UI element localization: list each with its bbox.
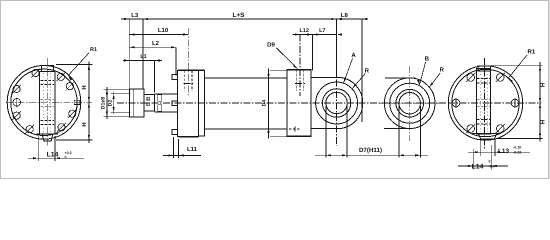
cylinder tube top [205, 77, 288, 79]
right flange bolt hole 3 [467, 74, 475, 82]
svg-text:L13: L13 [498, 148, 509, 155]
eye B vertical centerline [409, 66, 411, 141]
left flange end view outer circle [7, 66, 81, 140]
eye B boss circle [390, 83, 430, 123]
front port hidden lines [184, 70, 186, 91]
front head flange part [199, 70, 205, 136]
left flange top port boss [42, 66, 54, 72]
svg-text:L10: L10 [158, 27, 169, 34]
dimension L7 [312, 34, 336, 36]
dimension D1e8 extension lines [104, 88, 131, 90]
svg-text:L11: L11 [187, 146, 198, 153]
svg-text:D4: D4 [261, 100, 267, 107]
dimension L14 extension lines (left view) [37, 136, 39, 161]
left flange center tube rectangle [40, 71, 56, 134]
dimension L14 (left view) [28, 157, 84, 159]
dimension D7(H11) [315, 154, 428, 156]
rear eye pin hole [326, 92, 347, 113]
left flange vertical centerline [46, 58, 48, 147]
svg-text:R: R [440, 67, 445, 74]
rod locknut marks [158, 95, 162, 102]
eye B pin hole [399, 93, 420, 114]
rear port centerline [299, 35, 301, 97]
eye B bottom chord line [384, 128, 413, 130]
extension line rod eye rear face [142, 19, 144, 89]
left flange bolt hole 1 [66, 83, 73, 90]
dimension D7 extension lines [325, 106, 327, 158]
svg-text:L7: L7 [319, 28, 325, 34]
left flange bolt hole 2 [57, 73, 64, 80]
right flange vertical centerline [483, 58, 485, 150]
extension line rear head face [311, 35, 313, 71]
left flange tube rect hidden lines [41, 80, 55, 82]
rear port center cross [295, 83, 305, 85]
dimension L10 [129, 34, 188, 36]
dimension D2 extension lines [111, 93, 131, 95]
right flange inner circle [452, 69, 519, 136]
right flange outer circle [448, 66, 522, 140]
rear port hidden lines [295, 70, 297, 91]
left flange bolt hole 5 [13, 112, 20, 119]
dimension L12 [293, 34, 313, 36]
left flange inner circle [11, 69, 77, 135]
dimension L1 [123, 60, 162, 62]
eye B horizontal centerline [379, 102, 444, 104]
left flange pilot hole at 180 [13, 99, 21, 107]
extension line eye center [336, 19, 338, 78]
left flange bolt hole 8 [69, 110, 76, 117]
dimension L3 [121, 18, 150, 20]
svg-text:L12: L12 [300, 28, 309, 34]
svg-text:L8: L8 [341, 12, 349, 19]
left flange rim pad at 0 [74, 100, 80, 104]
extension line head front face [175, 47, 177, 75]
rod thread marks [147, 97, 150, 100]
svg-text:L+S: L+S [233, 12, 246, 19]
svg-text:L2: L2 [152, 40, 160, 47]
svg-text:H: H [81, 85, 88, 89]
right flange top boss [478, 66, 491, 71]
svg-text:D9: D9 [267, 42, 275, 49]
dimension D1e8 [106, 87, 108, 119]
front head middle tab [172, 101, 178, 106]
right flange center rectangle [477, 69, 491, 134]
rear eye lug outline [311, 77, 363, 128]
dimension L14 (right view) [458, 165, 508, 167]
svg-text:B: B [425, 56, 430, 63]
svg-text:-0.10: -0.10 [513, 145, 521, 149]
svg-text:H: H [540, 83, 547, 87]
extension line eye rear face [361, 19, 363, 122]
right flange bottom boss [472, 134, 500, 140]
right flange bolt hole 2 [496, 74, 504, 82]
svg-text:H: H [540, 120, 547, 124]
svg-text:+0.2: +0.2 [65, 151, 72, 155]
svg-text:-0.4: -0.4 [489, 164, 495, 168]
dimension L13 [468, 151, 530, 153]
svg-text:L14: L14 [472, 163, 484, 170]
right flange rect hidden lines [477, 78, 491, 80]
svg-text:H: H [81, 122, 88, 126]
rod eye block [129, 89, 144, 117]
rear eye vertical centerline [336, 68, 338, 146]
right flange bolt hole 6 [496, 125, 504, 133]
rear eye chamfer circle [322, 89, 350, 117]
front port center cross [183, 83, 193, 85]
left flange bolt hole 4 [13, 85, 20, 92]
dimension L11 extension lines [173, 137, 175, 158]
svg-text:R1: R1 [90, 47, 97, 53]
dimension D4 [268, 68, 270, 138]
dimension H (right view) [491, 64, 543, 66]
left flange bolt hole 6 [26, 126, 33, 133]
svg-text:L14: L14 [47, 151, 59, 158]
svg-text:0: 0 [489, 159, 491, 163]
left flange horizontal centerline [6, 101, 92, 103]
left flange bottom boss [37, 134, 59, 141]
svg-text:L3: L3 [131, 12, 139, 19]
rear eye flat face line [361, 85, 363, 122]
svg-text:-0.33: -0.33 [513, 150, 521, 154]
eye B top chord line [385, 77, 416, 79]
dimension L8 [337, 18, 368, 20]
right flange bottom spigot lines [479, 139, 481, 156]
svg-text:R1: R1 [528, 49, 536, 56]
rear head bottom hidden port dashes [289, 128, 301, 130]
dimension D4 extension lines [270, 69, 287, 71]
front port centerline [187, 28, 189, 96]
right flange horizontal centerline [448, 102, 541, 104]
rod thread section [144, 95, 155, 112]
piston rod [155, 93, 177, 95]
front head block [178, 70, 199, 136]
cylinder tube bottom [205, 128, 288, 130]
main horizontal centerline [117, 102, 447, 104]
right flange bolt hole 1 [511, 99, 519, 107]
svg-text:0: 0 [65, 156, 67, 160]
front head bottom tab [172, 130, 178, 135]
left flange bolt hole 3 [32, 69, 39, 76]
rear eye boss circle [316, 82, 358, 124]
eye B chamfer circle [396, 89, 424, 117]
svg-text:D2: D2 [108, 100, 114, 107]
dimension L2 [129, 46, 176, 48]
dimension L11 [163, 154, 201, 156]
dimension L+S [143, 18, 337, 20]
right flange bolt hole 4 [452, 99, 460, 107]
dimension D2 [113, 92, 115, 114]
extension line rod thread end [154, 61, 156, 93]
dimension H (left view) [56, 64, 93, 66]
svg-text:R: R [365, 67, 370, 74]
left flange bolt hole 7 [58, 124, 65, 131]
svg-text:A: A [351, 52, 356, 59]
front head top tab [172, 75, 178, 80]
right flange bolt hole 5 [467, 125, 475, 133]
svg-text:L1: L1 [140, 54, 146, 60]
svg-text:D1e8: D1e8 [101, 97, 107, 110]
page border frame [1, 1, 549, 179]
dimension L14 extension lines (right view) [472, 149, 474, 169]
eye B outer circle [384, 78, 435, 129]
extension line rod end face [128, 19, 130, 89]
rod eye block inner line [132, 89, 134, 117]
rear head block [287, 70, 311, 137]
svg-text:D7(H11): D7(H11) [359, 147, 382, 154]
